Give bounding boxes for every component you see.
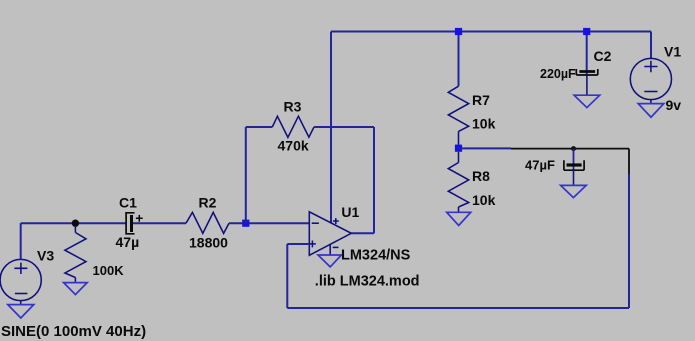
capacitor C1 — [126, 213, 143, 234]
svg-text:U1: U1 — [341, 204, 359, 220]
svg-text:100K: 100K — [93, 263, 125, 278]
ground under R8 — [447, 212, 471, 225]
svg-text:47µ: 47µ — [116, 234, 140, 250]
wire feedback loop to non-inverting input — [287, 174, 629, 308]
svg-text:R2: R2 — [199, 194, 217, 210]
svg-text:C1: C1 — [119, 195, 137, 211]
resistor R8 — [448, 152, 468, 213]
op-amp U1 — [309, 212, 351, 256]
voltage source V3 — [0, 259, 41, 300]
svg-text:LM324/NS: LM324/NS — [341, 248, 411, 264]
wire junction up to R3 — [246, 127, 272, 223]
svg-text:10k: 10k — [472, 192, 496, 208]
svg-text:SINE(0 100mV 40Hz): SINE(0 100mV 40Hz) — [1, 323, 146, 340]
svg-text:9v: 9v — [666, 97, 682, 113]
ground under V3 — [8, 305, 34, 318]
svg-text:47µF: 47µF — [525, 158, 555, 173]
svg-text:V3: V3 — [37, 247, 54, 263]
svg-text:V1: V1 — [664, 44, 681, 60]
node junction rail/C2 — [583, 28, 590, 35]
node junction rail/R7 — [455, 28, 462, 35]
ground under op-amp — [318, 255, 341, 267]
svg-text:R8: R8 — [472, 168, 490, 184]
ground under 100K — [64, 283, 88, 295]
resistor R7 — [448, 86, 468, 145]
svg-text:470k: 470k — [278, 138, 309, 154]
node junction R7/R8 — [455, 145, 462, 152]
node black dot V3/R4 tap — [72, 220, 79, 227]
svg-text:.lib LM324.mod: .lib LM324.mod — [315, 274, 420, 290]
svg-text:C2: C2 — [594, 48, 612, 64]
svg-text:R3: R3 — [284, 98, 302, 114]
wire mid node blue segment — [459, 147, 512, 149]
wire mid node black segment — [511, 149, 629, 174]
resistor R3 — [272, 116, 314, 137]
wire rail to C2 — [586, 32, 588, 76]
ground under C2 — [574, 95, 600, 107]
wire R2 to op-amp inverting input — [229, 222, 309, 224]
capacitor C3 47uF — [564, 149, 584, 186]
resistor R2 — [186, 212, 229, 233]
ground under V1 — [638, 104, 664, 118]
wire top supply rail — [331, 31, 651, 33]
svg-text:R7: R7 — [472, 92, 490, 108]
wire V3 to input node — [21, 223, 126, 259]
wire rail to V1 — [650, 32, 652, 59]
voltage source V1 — [630, 58, 671, 99]
node black dot at 47uF tap — [571, 146, 576, 151]
wire R3 to output node — [314, 127, 374, 233]
wire V1 to ground — [650, 100, 652, 104]
svg-text:220µF: 220µF — [540, 67, 576, 81]
wire V+ drop to op-amp — [330, 32, 332, 223]
node junction R2/R3 — [242, 220, 249, 227]
wire C2 to ground — [586, 75, 588, 95]
wire C1 to R2 — [133, 222, 186, 224]
capacitor C2 — [576, 69, 598, 75]
ground under 47uF — [561, 185, 587, 197]
resistor R4 100K — [65, 226, 86, 283]
wire V3 to ground — [20, 301, 22, 305]
wire rail to R7 — [458, 32, 460, 87]
svg-text:18800: 18800 — [189, 235, 228, 251]
svg-text:10k: 10k — [472, 115, 496, 131]
